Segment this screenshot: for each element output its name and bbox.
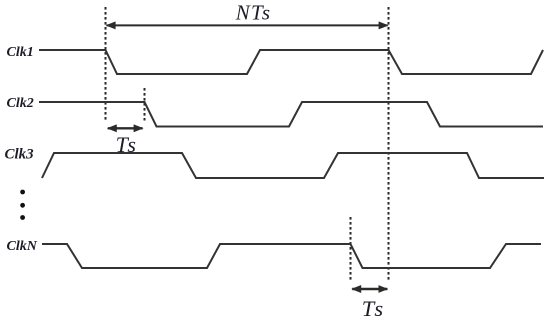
waveform Clk2 [39,102,543,127]
dimension arrow Ts (top) [108,127,143,129]
svg-text:Clk2: Clk2 [7,96,34,111]
svg-text:Clk1: Clk1 [7,45,34,60]
waveform Clk3 [42,153,544,178]
waveform ClkN [42,244,541,268]
ellipsis dots [20,190,25,195]
dotted guide line at x=388 [388,7,390,282]
svg-text:Ts: Ts [362,296,386,321]
dotted guide line at x=105 [105,7,107,121]
svg-text:ClkN: ClkN [7,239,38,254]
svg-text:NTs: NTs [235,1,272,25]
dimension arrow Ts (bottom) [352,288,387,290]
dimension arrow NTs [107,24,388,26]
dotted guide line at x=144 [144,88,146,121]
svg-text:Clk3: Clk3 [5,147,35,163]
waveform Clk1 [39,50,543,74]
dotted guide line at x=350 [350,217,352,282]
